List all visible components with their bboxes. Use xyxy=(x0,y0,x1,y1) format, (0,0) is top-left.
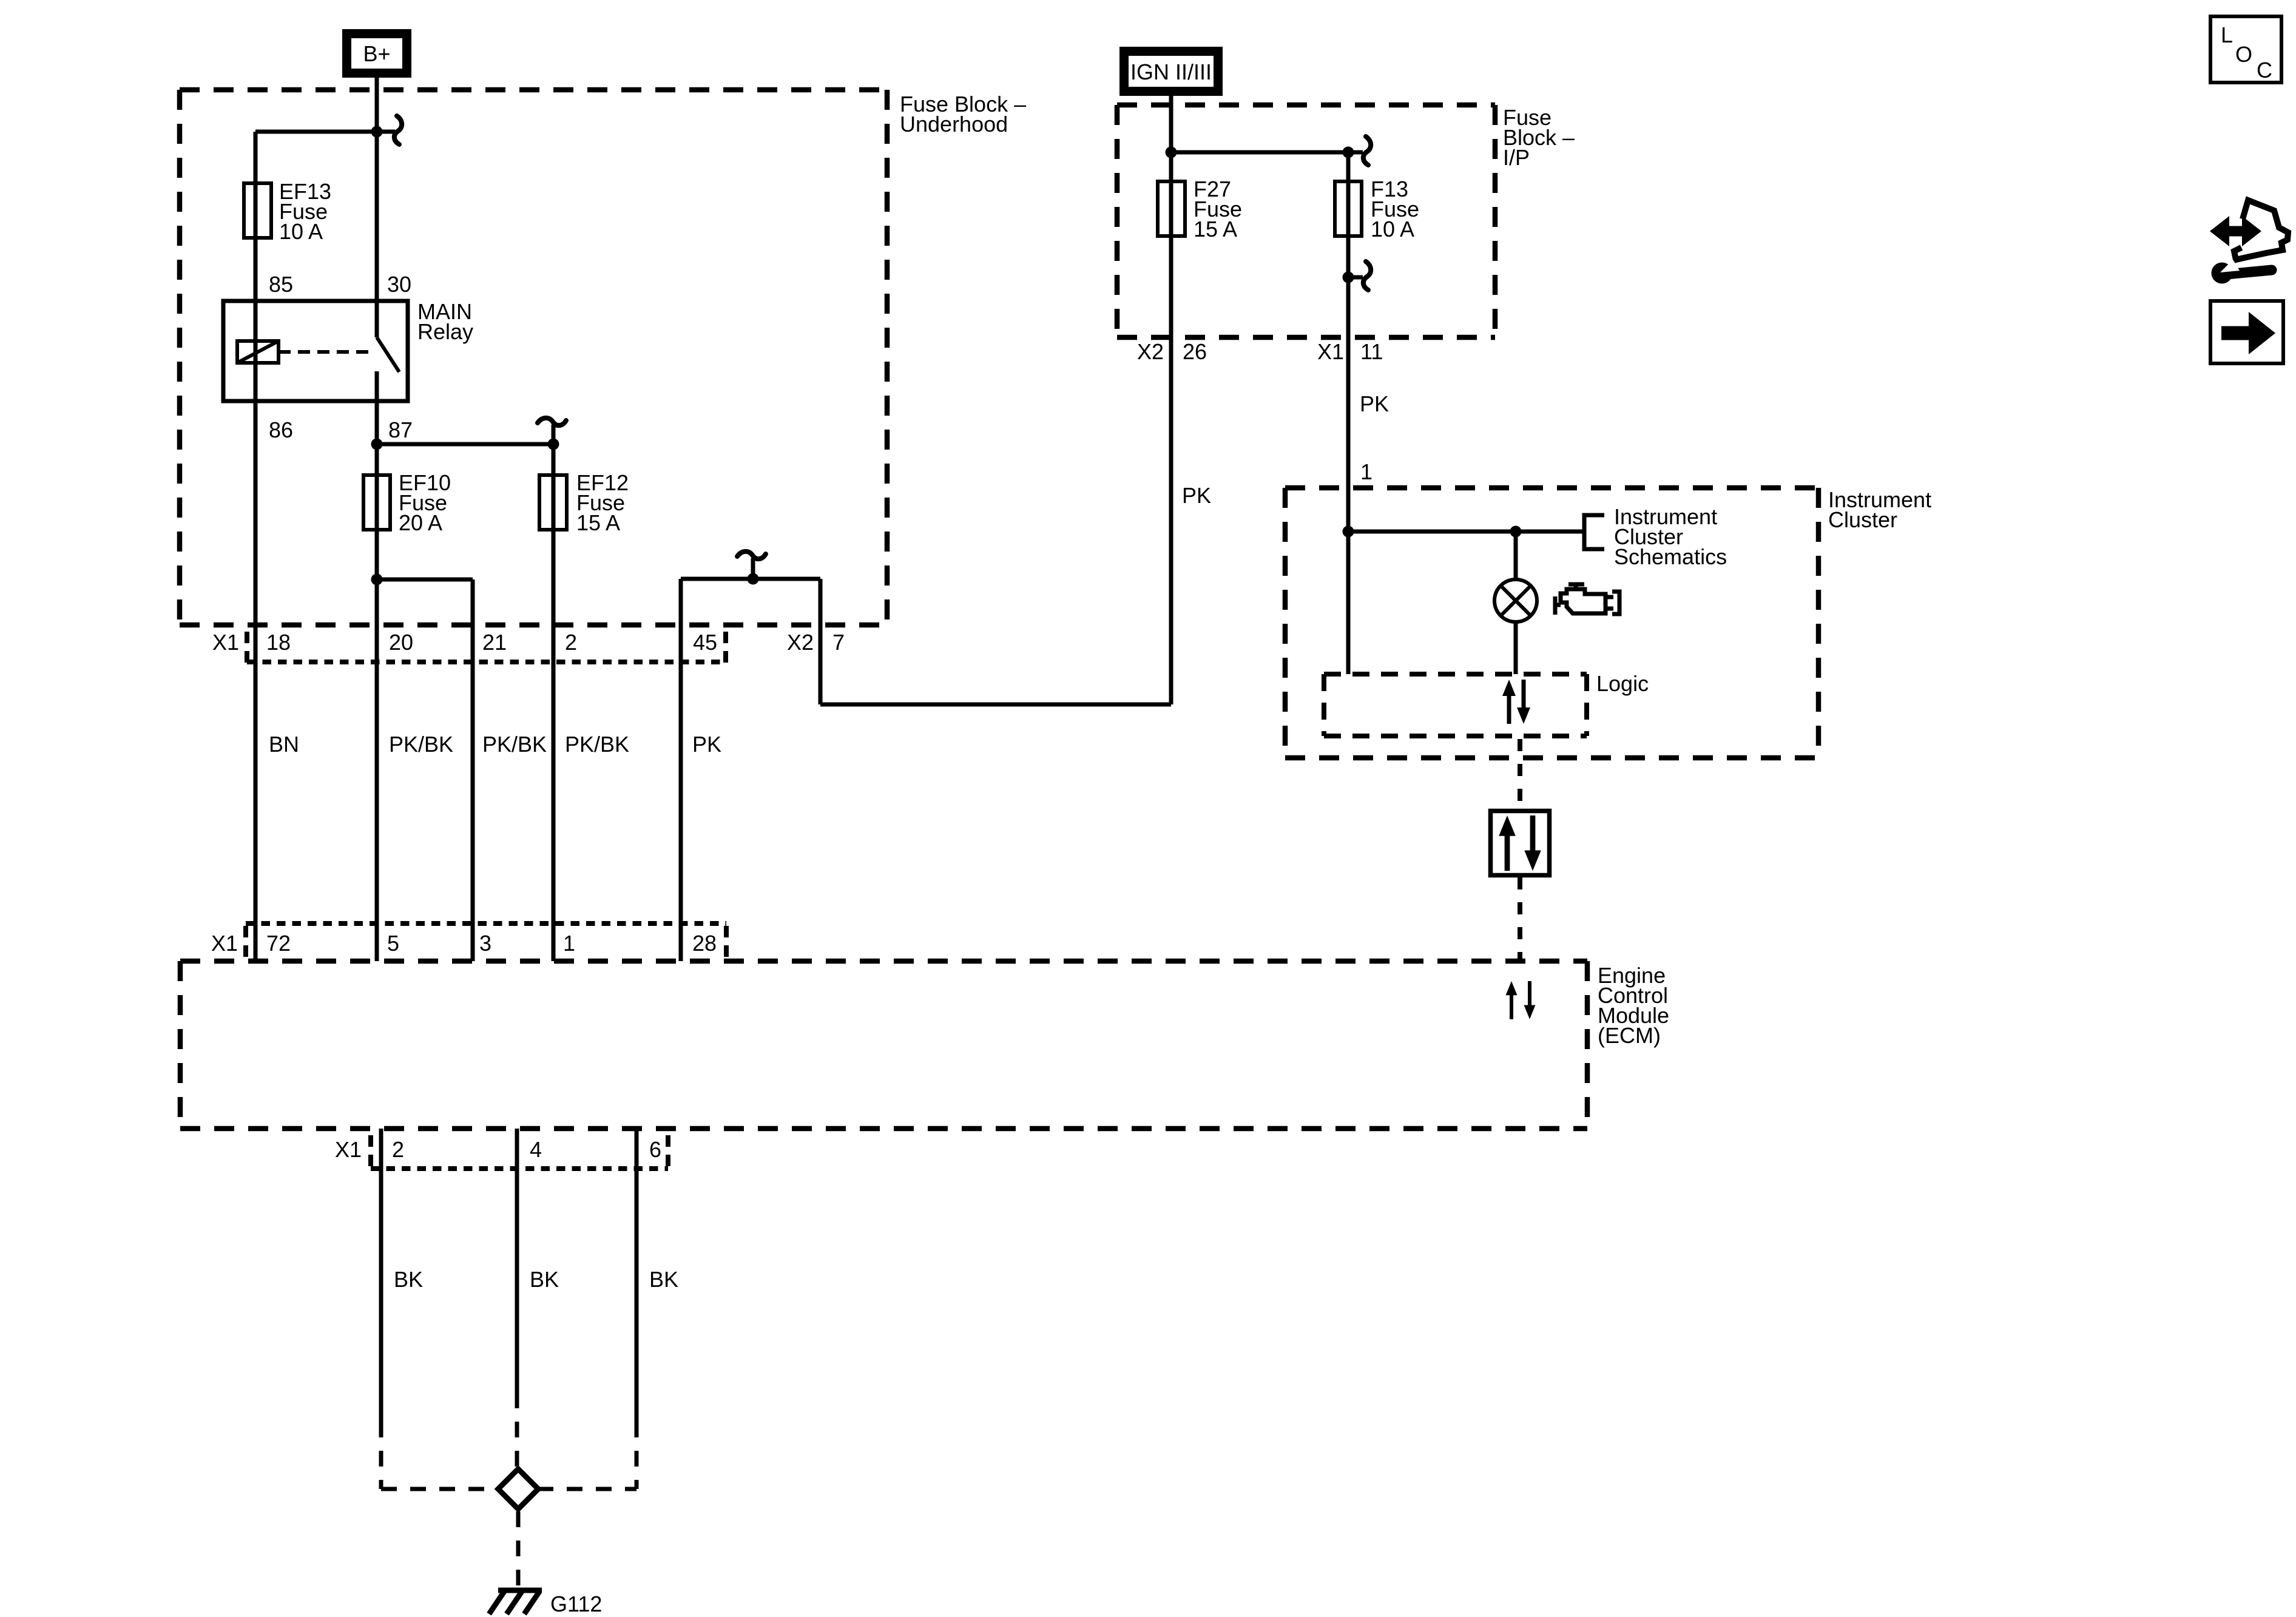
svg-text:28: 28 xyxy=(692,931,717,956)
svg-text:30: 30 xyxy=(387,272,411,297)
svg-text:1: 1 xyxy=(1360,459,1373,484)
svg-text:45: 45 xyxy=(693,630,717,655)
svg-text:7: 7 xyxy=(832,630,845,655)
svg-text:Logic: Logic xyxy=(1596,671,1649,696)
svg-text:10 A: 10 A xyxy=(1371,217,1414,241)
svg-text:PK/BK: PK/BK xyxy=(389,732,453,757)
svg-text:O: O xyxy=(2235,42,2252,67)
svg-text:4: 4 xyxy=(530,1137,542,1162)
svg-text:18: 18 xyxy=(266,630,291,655)
svg-text:20 A: 20 A xyxy=(399,510,442,535)
svg-text:X1: X1 xyxy=(212,630,239,655)
svg-text:20: 20 xyxy=(389,630,413,655)
svg-text:2: 2 xyxy=(392,1137,404,1162)
svg-text:X1: X1 xyxy=(211,931,238,956)
svg-text:5: 5 xyxy=(387,931,399,956)
svg-text:X1: X1 xyxy=(335,1137,362,1162)
svg-text:(ECM): (ECM) xyxy=(1598,1023,1661,1048)
svg-text:X2: X2 xyxy=(1137,339,1164,364)
svg-text:Underhood: Underhood xyxy=(900,112,1008,137)
svg-text:PK: PK xyxy=(692,732,721,757)
svg-text:PK/BK: PK/BK xyxy=(482,732,547,757)
svg-text:3: 3 xyxy=(479,931,491,956)
svg-text:72: 72 xyxy=(266,931,291,956)
svg-text:2: 2 xyxy=(565,630,577,655)
svg-text:B+: B+ xyxy=(363,41,390,66)
svg-text:11: 11 xyxy=(1360,339,1383,364)
svg-text:BN: BN xyxy=(269,732,299,757)
svg-text:86: 86 xyxy=(269,417,293,442)
svg-text:87: 87 xyxy=(388,417,413,442)
svg-text:10 A: 10 A xyxy=(279,219,323,244)
svg-text:21: 21 xyxy=(482,630,507,655)
svg-text:15 A: 15 A xyxy=(576,510,620,535)
svg-text:85: 85 xyxy=(269,272,293,297)
svg-text:BK: BK xyxy=(649,1267,678,1292)
svg-text:26: 26 xyxy=(1183,339,1207,364)
svg-text:PK: PK xyxy=(1182,483,1211,508)
svg-text:L: L xyxy=(2221,22,2233,47)
svg-text:1: 1 xyxy=(563,931,575,956)
svg-text:6: 6 xyxy=(649,1137,661,1162)
svg-text:Relay: Relay xyxy=(417,319,473,344)
svg-text:C: C xyxy=(2257,58,2272,83)
svg-text:15 A: 15 A xyxy=(1194,217,1237,241)
svg-text:BK: BK xyxy=(394,1267,423,1292)
svg-text:I/P: I/P xyxy=(1503,145,1530,170)
svg-text:X2: X2 xyxy=(787,630,814,655)
svg-text:X1: X1 xyxy=(1317,339,1344,364)
svg-text:G112: G112 xyxy=(550,1592,602,1616)
svg-text:Cluster: Cluster xyxy=(1828,507,1897,532)
svg-text:PK: PK xyxy=(1360,391,1389,416)
svg-text:Schematics: Schematics xyxy=(1614,544,1727,569)
svg-text:IGN II/III: IGN II/III xyxy=(1130,59,1212,84)
svg-text:BK: BK xyxy=(530,1267,559,1292)
svg-text:PK/BK: PK/BK xyxy=(565,732,629,757)
